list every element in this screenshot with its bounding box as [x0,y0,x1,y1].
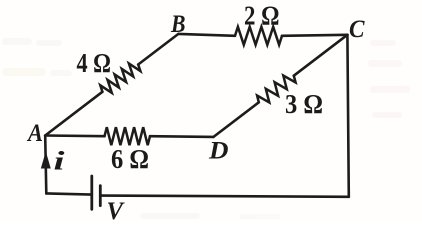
resistor R 3 ohm zigzag [257,76,296,103]
svg-text:2 Ω: 2 Ω [244,1,280,31]
wire B to 2-ohm start (top) [178,34,235,36]
faint scan artifacts [2,38,410,219]
svg-text:4 Ω: 4 Ω [77,48,112,78]
wire A to 4-ohm start (diagonal A-B lower part) [45,92,102,136]
resistor R 2 ohm zigzag [235,27,282,45]
wire bottom right: battery to bottom-right corner [100,196,348,197]
svg-text:i: i [54,147,66,176]
svg-text:3 Ω: 3 Ω [285,89,323,119]
svg-text:C: C [349,16,365,43]
svg-text:V: V [107,198,126,221]
svg-text:B: B [170,11,185,38]
wire bottom left: corner to battery [46,193,92,194]
wire 4-ohm end to node B (diagonal A-B upper part) [138,34,178,65]
wire A to 6-ohm start (bottom inner) [45,134,104,137]
resistor R 4 ohm zigzag [100,64,140,93]
battery V short plate [99,186,102,206]
svg-text:6 Ω: 6 Ω [111,144,149,174]
battery V long plate [90,176,93,209]
wire 2-ohm end to node C (top) [282,35,347,36]
wire D to 3-ohm start (diagonal D-C lower part) [214,102,259,137]
wire 6-ohm end to node D [150,135,214,138]
svg-text:D: D [208,138,229,165]
svg-text:A: A [26,120,43,147]
wire left vertical A down to bottom-left corner [45,136,46,194]
resistor R 6 ohm zigzag [105,127,151,145]
wire 3-ohm end to node C (diagonal D-C upper part) [294,35,348,76]
wire right vertical C down to bottom-right corner [347,35,348,197]
current arrowhead i (pointing up) [42,153,51,168]
